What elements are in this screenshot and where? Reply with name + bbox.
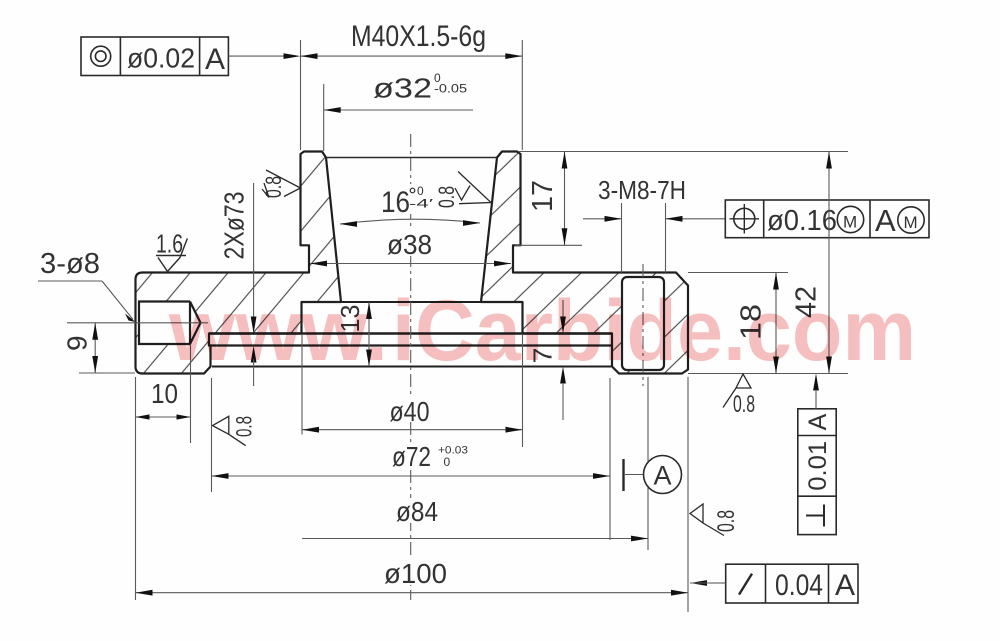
svg-text:www.: www. [168,283,388,379]
svg-text:3-ø8: 3-ø8 [40,248,100,280]
svg-text:ø100: ø100 [384,558,447,589]
svg-text:0.8: 0.8 [232,416,257,437]
M8 hole centerline [642,264,644,386]
svg-text:0.04: 0.04 [775,569,823,602]
svg-text:0.8: 0.8 [733,391,755,418]
groove edge A (dia73 groove top) [209,332,612,334]
svg-text:10: 10 [151,378,178,409]
svg-text:+0.03: +0.03 [438,445,468,457]
svg-text:1.6: 1.6 [156,229,183,259]
M8 tapped hole outline [622,277,664,370]
0.8 finish symbol, counterbore wall [213,416,246,445]
svg-text:-0.05: -0.05 [434,82,467,96]
svg-text:9: 9 [62,335,93,351]
svg-text:ø0.02: ø0.02 [127,43,195,74]
svg-text:A: A [835,569,855,602]
svg-text:A: A [654,461,672,491]
groove edge C (lower dia73 groove top) [212,366,611,368]
svg-text:A: A [804,413,832,430]
left section outline [136,152,342,374]
concentricity FCF frame [81,37,228,76]
svg-text:17: 17 [527,180,559,212]
datum A symbol [622,459,624,491]
svg-text:2Xø73: 2Xø73 [219,192,250,260]
svg-text:ø32: ø32 [373,73,432,104]
right cut section (hatched) [481,152,688,374]
0.8 finish symbol, bottom face [723,374,751,408]
left cut section (hatched) [136,152,342,374]
svg-text:ø38: ø38 [387,229,432,260]
3-dia8 hole outline [139,302,201,345]
centerline breaks behind dimension texts [384,230,434,256]
svg-text:A: A [875,203,896,238]
bore chamfer circle edge (top) [326,157,497,159]
main centerline [410,134,412,600]
svg-text:M: M [904,213,918,232]
svg-text:0: 0 [444,455,451,469]
3-dia8 side hole (white cut-out) [139,302,201,345]
right section outline [481,152,688,374]
svg-text:0.01: 0.01 [804,441,832,491]
circular runout FCF 0.04 A [726,564,858,603]
groove edge B (dia73 groove bottom) [209,344,612,346]
svg-text:ø84: ø84 [396,496,438,527]
svg-text:16: 16 [381,186,410,219]
svg-text:ø72: ø72 [392,441,431,472]
0.8 finish symbol, dia100 surface [690,504,724,536]
svg-text:0.8: 0.8 [713,510,740,532]
svg-text:M: M [843,213,857,232]
svg-text:M40X1.5-6g: M40X1.5-6g [351,20,486,53]
M8 tapped hole (white cut-out) [622,277,664,370]
svg-text:3-M8-7H: 3-M8-7H [598,175,686,205]
perpendicularity FCF 0.01 A (vertical) [798,409,836,535]
svg-text:A: A [205,43,225,76]
FCF leader to M40 dimension [228,55,296,57]
svg-text:-4′: -4′ [409,197,434,211]
dia40 bore ceiling edge [302,301,523,303]
dia8 hole centerline / 9-dim upper extension [67,322,208,324]
svg-text:iCarbide.com: iCarbide.com [392,283,916,379]
svg-text:ø40: ø40 [390,396,430,427]
svg-text:ø0.16: ø0.16 [767,205,837,237]
true position FCF dia0.16(M) A(M) [725,200,929,238]
